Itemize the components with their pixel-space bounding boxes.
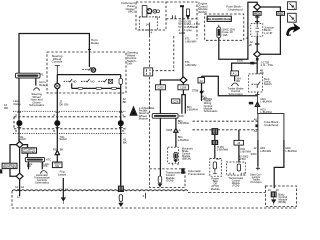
wire bottom left to transmission <box>62 178 64 198</box>
wire diamond D1 right branch <box>23 145 28 148</box>
module aux fuse block underhood box <box>258 114 284 141</box>
node label Steering Wheel Control Switch Left <box>127 51 138 66</box>
inline connector arrow right <box>255 102 259 106</box>
wire label RD BK <box>53 148 64 152</box>
svg-text:SW: SW <box>55 165 60 168</box>
horn symbol circle <box>91 68 95 72</box>
inline connector box C2 <box>144 68 153 76</box>
wire aux left output down <box>257 140 259 167</box>
switch body dashed box top edge <box>14 116 126 118</box>
mechanical coupling dotted line bottom <box>13 133 126 135</box>
wire diamond D3 right branch <box>202 76 258 96</box>
wire label BK1 below arrow <box>178 135 189 142</box>
black mark page edge <box>0 169 2 173</box>
node label T3G switch 2 <box>59 135 67 141</box>
svg-text:Left: Left <box>127 62 132 66</box>
pin tick below D5 <box>256 58 259 61</box>
svg-text:BK: BK <box>123 140 127 144</box>
pin label 1-HI <box>155 15 161 19</box>
svg-text:4 dr - T3G: 4 dr - T3G <box>261 63 273 67</box>
wire T1 to T2 <box>214 135 216 140</box>
fuse symbol in ECM <box>187 9 190 15</box>
module EBCM dashed box <box>168 147 179 163</box>
arrow ECM driver output <box>186 15 190 18</box>
junction block dashed sub-box <box>251 24 263 37</box>
IPC inner dashed sub-box <box>139 17 157 30</box>
module TCM dashed box <box>150 169 186 188</box>
lamp square symbol <box>108 79 112 83</box>
inline connector box K4 <box>198 78 205 84</box>
pin tick horn line into dashed box <box>88 49 91 51</box>
svg-text:RD: RD <box>53 148 57 152</box>
warning triangle note <box>129 106 137 116</box>
wire horn feed loop from clockspring to horn switch <box>19 34 89 74</box>
reference text Automatic Transmission Controls Schematics <box>34 173 50 185</box>
wire switch row output down <box>120 88 122 116</box>
connector arc symbol transmission <box>40 171 47 174</box>
wire left clockspring output down <box>18 78 20 117</box>
wire below stop lamp switch <box>255 85 259 113</box>
svg-text:5008: 5008 <box>166 128 172 132</box>
wire label left of channel 1 <box>187 105 198 112</box>
ground arrow bottom left <box>61 198 66 204</box>
stop lamp switch dashed box <box>249 74 263 92</box>
svg-text:Relay: Relay <box>91 41 99 45</box>
wire label 42 BK <box>123 97 127 104</box>
splice blob on trailer branch <box>250 62 254 65</box>
junction diamond D5 <box>254 51 261 57</box>
node label Automatic Transmission <box>188 169 205 176</box>
svg-text:ATC: ATC <box>46 157 51 161</box>
svg-text:10A: 10A <box>222 33 227 37</box>
svg-text:RD: RD <box>236 79 240 83</box>
arrow EBCM down <box>174 160 178 163</box>
svg-text:L of JP: L of JP <box>264 31 272 35</box>
svg-text:L-BU/WH: L-BU/WH <box>201 97 212 101</box>
resistor pill PTO <box>213 162 216 169</box>
svg-text:P1: P1 <box>40 73 44 77</box>
reference box ATC MFS switches left <box>2 163 17 169</box>
pin label A1 <box>254 129 258 133</box>
reference text Trailer Brake Controls Schematics <box>228 87 244 96</box>
svg-text:A-1: A-1 <box>233 72 238 76</box>
switch body dashed box left edge <box>13 117 15 129</box>
svg-text:Underhood: Underhood <box>264 123 278 127</box>
svg-text:BK: BK <box>123 100 127 104</box>
svg-text:1-HI: 1-HI <box>155 15 161 19</box>
reference box trailer relay <box>231 71 239 76</box>
connector clockspring coil bar P1 <box>16 73 41 78</box>
svg-text:Relay: Relay <box>14 102 22 106</box>
arrow BCM down <box>271 197 276 204</box>
node label Horn Relay 2 <box>39 80 47 87</box>
wire box B to diamond D2 <box>10 169 16 177</box>
node label Horn Relay <box>91 38 99 45</box>
svg-text:L-BU/WH: L-BU/WH <box>285 149 296 153</box>
pin labels 10 10 <box>268 188 279 192</box>
svg-text:(BCM): (BCM) <box>278 200 286 204</box>
resistor R4 vertical right end <box>119 75 122 89</box>
junction diamond D1 <box>16 142 23 148</box>
pin ticks above steer col reference <box>256 167 260 171</box>
reference box ATC MFS switches right <box>22 148 37 154</box>
inline connector arrow on fog line <box>55 149 59 162</box>
inline connector arrow on EBCM line <box>174 128 178 132</box>
node label Transmission Control Module TCM <box>166 171 182 183</box>
splice dot S3 <box>118 120 124 126</box>
steering wheel control switch left dashed box <box>47 52 126 93</box>
svg-text:HI/LO/HORN Relay: HI/LO/HORN Relay <box>206 17 232 21</box>
wire label 42 S003 <box>239 156 249 162</box>
node label Fuse Block Underhood 2 <box>264 120 280 127</box>
pin label A6 <box>254 118 258 122</box>
horn switch contact <box>82 67 91 70</box>
wire label HD1 right <box>285 146 296 153</box>
node label below boundary <box>17 194 20 198</box>
shielded cable channel double line <box>182 95 185 114</box>
wire diamond D1 left branch <box>10 145 16 164</box>
pin marks PTO <box>213 169 216 173</box>
inline connector box K1 <box>156 85 166 90</box>
connector blob on TCM box top <box>181 168 184 174</box>
wire aux right output down jog <box>274 140 284 188</box>
svg-text:Lamps: Lamps <box>58 172 67 176</box>
node label T3G switch 1 <box>18 135 26 141</box>
arrow TCM output <box>158 184 162 187</box>
svg-text:IPK: IPK <box>27 164 31 168</box>
wire label 16A RD <box>236 77 241 84</box>
svg-text:Schematics: Schematics <box>29 103 44 107</box>
wire K2 to shield channel <box>182 83 184 95</box>
svg-text:Relay: Relay <box>39 83 47 87</box>
pins below EBCM box <box>173 163 178 165</box>
svg-text:C208: C208 <box>180 86 187 90</box>
pin labels A2 A2 <box>59 188 69 192</box>
pin ticks on switch body crossings <box>17 112 123 127</box>
svg-text:B: B <box>122 129 124 133</box>
svg-text:L-BU/WH: L-BU/WH <box>178 121 189 125</box>
connector black box T2 <box>212 140 219 145</box>
pin labels C1 C1 <box>15 185 25 192</box>
wire diamond D4 down <box>256 10 258 12</box>
svg-text:C74: C74 <box>173 99 178 103</box>
wire label HD1 left <box>260 146 271 153</box>
pin tick black aux <box>255 124 258 127</box>
wire fuse output routing loop <box>219 2 257 59</box>
svg-text:Underhood: Underhood <box>228 7 243 11</box>
module PTO dashed box <box>210 159 222 177</box>
svg-text:14: 14 <box>146 23 150 27</box>
svg-text:IPK: IPK <box>43 164 47 168</box>
wire below trailer box <box>234 76 236 82</box>
stop lamp switch contact <box>251 82 260 86</box>
svg-text:Transmission: Transmission <box>188 172 205 176</box>
svg-text:5T08: 5T08 <box>192 89 199 93</box>
svg-text:W-BU: W-BU <box>239 158 246 161</box>
chime symbol <box>153 9 160 13</box>
switch SW2 <box>81 79 90 82</box>
reference box on transmission feed <box>234 140 244 145</box>
dashed option boundary right <box>153 36 174 71</box>
wire label PTO feed <box>217 145 228 152</box>
module BCM dashed box <box>266 186 297 207</box>
pin label 5008 <box>166 128 181 132</box>
svg-text:BK: BK <box>60 148 64 152</box>
wire from clockspring to horn relay reference <box>35 78 37 86</box>
svg-text:L-BU/WH: L-BU/WH <box>260 149 271 153</box>
svg-text:L-BU/WH: L-BU/WH <box>260 99 271 103</box>
lamp mark <box>55 66 60 75</box>
svg-text:(EBCM): (EBCM) <box>182 158 191 161</box>
pin label F28 <box>179 114 184 118</box>
svg-text:(TCM): (TCM) <box>232 185 239 188</box>
svg-text:Schematics: Schematics <box>35 181 50 185</box>
wire bottom bus of switch row <box>72 87 121 89</box>
connector blob BCM <box>271 191 277 197</box>
wire through switch body 1 <box>18 117 20 142</box>
junction diamond D3 <box>180 77 187 83</box>
boundary dashed right segment <box>188 191 266 193</box>
svg-text:F28: F28 <box>179 114 184 118</box>
icon hotlink box 1 <box>288 2 297 10</box>
pin label 14 <box>146 23 153 35</box>
svg-text:A1: A1 <box>254 129 258 133</box>
pins below TCM right <box>230 173 244 175</box>
wire label HD1 lower <box>260 108 271 115</box>
dashed wire A-right to aux block <box>193 120 258 122</box>
svg-text:(ECM): (ECM) <box>198 10 206 14</box>
inline connector box K2 <box>178 85 189 90</box>
module IPC dashed box <box>136 2 166 30</box>
junction diamond D2 <box>16 173 23 179</box>
boundary wavy dashed line <box>12 190 188 191</box>
svg-text:(IPC): (IPC) <box>128 10 135 14</box>
connector C2 blob bottom of center line <box>118 186 124 192</box>
connector box RED left <box>253 12 261 16</box>
wire trailer branch <box>232 63 258 71</box>
svg-text:2F: 2F <box>249 43 252 47</box>
fuse SWC vertical <box>217 25 221 38</box>
svg-text:L-BU/WH: L-BU/WH <box>240 150 251 153</box>
svg-text:RD: RD <box>260 71 264 75</box>
svg-text:B2: B2 <box>216 157 220 161</box>
note text Adjustable Pedals Steering Wheel Module <box>139 106 155 120</box>
inline connector small box K3 <box>172 99 180 103</box>
wire label 6T1 lower <box>185 60 196 67</box>
pin label 2F <box>249 43 252 47</box>
svg-text:L-BU/WH: L-BU/WH <box>185 63 196 67</box>
pin tick ECM top <box>180 5 184 7</box>
splice dot S2 <box>54 120 60 126</box>
wire label 16 RD <box>4 103 8 110</box>
wire label Horn Relay <box>14 99 22 106</box>
wire label S306 <box>237 58 244 62</box>
wire label 42 BK lower <box>123 138 127 145</box>
splice diamond black <box>200 90 204 94</box>
wire K4 down <box>201 83 203 101</box>
svg-text:L-BU/WH: L-BU/WH <box>178 138 189 142</box>
wire label HD1 upper <box>260 97 271 104</box>
splice dot S1 <box>16 120 22 126</box>
svg-text:Controls: Controls <box>52 60 63 64</box>
svg-text:(TCM): (TCM) <box>166 178 174 182</box>
svg-text:RED: RED <box>278 12 284 16</box>
svg-text:L2: L2 <box>17 194 20 198</box>
node label Electronic Brake Control Module EBCM <box>182 148 194 161</box>
resistor pill EBCM dark <box>174 152 178 159</box>
svg-text:S003: S003 <box>251 153 257 156</box>
pin labels fuse block bottom <box>246 36 254 44</box>
wire RED left down with pins <box>255 15 259 23</box>
reference text steer col lamps <box>250 172 262 184</box>
svg-text:Switch: Switch <box>264 82 272 86</box>
pin label P1 <box>40 73 44 77</box>
pin labels on switch body <box>15 113 124 133</box>
wire through switch body 3 <box>120 117 122 186</box>
node label Instrument Panel Cluster IPC <box>121 1 135 13</box>
reference box fog lamps <box>52 162 62 168</box>
connector arc symbol to horn circuit <box>33 88 39 91</box>
node label Power Take Off PTO Module <box>211 176 220 190</box>
wire through switch body 2 <box>56 117 58 149</box>
wire label HD1 transmission <box>240 148 251 154</box>
wire diamond D1 to D2 <box>19 148 21 174</box>
fuse label SWC Fuse 10A <box>222 27 235 37</box>
dashed option boundary column <box>149 35 151 169</box>
resistor R1 <box>78 87 83 89</box>
resistor R3 <box>111 87 116 89</box>
icon curved arrow <box>287 24 300 35</box>
connector clockspring coil bar 2 <box>25 157 44 161</box>
svg-text:Switch: Switch <box>18 137 26 141</box>
module ECM dashed box <box>166 2 197 39</box>
reference text Fog Lamps Schematics <box>58 170 67 177</box>
module fuse block underhood dashed box <box>205 14 244 40</box>
wire clockspring 2 output 1 <box>28 161 30 169</box>
wire K1 down through clockspring <box>159 90 161 176</box>
ECM pins crossing <box>172 15 175 18</box>
svg-text:Provision: Provision <box>250 180 262 184</box>
svg-text:RD: RD <box>4 106 8 110</box>
splice blob S307 <box>249 102 253 105</box>
icon hotlink box 2 <box>288 13 297 22</box>
node label Body Control Module BCM <box>278 192 287 204</box>
svg-text:A2: A2 <box>200 79 204 83</box>
IPC driver rectangle <box>142 6 147 17</box>
node label Engine Control Module ECM <box>198 2 208 14</box>
wire label 4B RD <box>260 69 264 76</box>
wire junction block to diamond D5 <box>255 36 259 51</box>
pin label B2 <box>216 157 220 161</box>
illumination lamp circle <box>55 75 60 117</box>
node label Stop Lamp Switch <box>264 77 272 86</box>
svg-text:L-BU/WH: L-BU/WH <box>217 147 228 151</box>
svg-text:10: 10 <box>268 188 271 192</box>
connector black box T1 <box>212 128 219 135</box>
pins inside junction block <box>255 24 259 37</box>
relay label box HORN relay <box>206 16 232 21</box>
svg-text:L-BU/WH: L-BU/WH <box>187 107 198 111</box>
reference text trailer wiring provisions <box>204 96 219 113</box>
ground arrow center bottom <box>119 201 124 206</box>
pin tick below boundary center <box>145 193 147 199</box>
wire ECM output down <box>182 7 184 77</box>
svg-text:1 gray: 1 gray <box>184 28 192 32</box>
svg-text:RED: RED <box>254 12 260 16</box>
svg-text:A: A <box>53 113 55 117</box>
pin label 5T08 <box>192 89 205 94</box>
wire top bus of switch row <box>57 74 120 76</box>
wire D5 down to stop lamp switch <box>256 58 258 74</box>
wire sw1 resistor stub <box>71 83 73 88</box>
svg-text:S306: S306 <box>237 58 244 62</box>
switch SW1 <box>64 79 73 82</box>
svg-text:ECM: ECM <box>179 31 186 35</box>
svg-text:Schematics: Schematics <box>204 109 219 113</box>
pin label ATC <box>46 157 51 161</box>
wire label left of channel 2 <box>178 119 189 125</box>
svg-text:G1: G1 <box>21 185 25 189</box>
svg-text:SWITCHES: SWITCHES <box>23 151 36 154</box>
mechanical coupling dotted line top <box>13 110 126 112</box>
boundary dashed bottom line <box>12 207 297 209</box>
switch body dashed box bottom edge <box>14 128 126 130</box>
svg-text:A: A <box>203 89 205 93</box>
svg-text:A: A <box>179 128 181 132</box>
node label Fuse Block Underhood <box>226 5 242 12</box>
module TCM right dashed box <box>226 162 245 175</box>
svg-text:NO: NO <box>90 80 94 84</box>
svg-text:A: A <box>15 113 17 117</box>
wire label J-1738 <box>261 61 273 68</box>
resistor pill TCM right <box>237 164 240 171</box>
switch SW3 <box>98 79 107 82</box>
wire label J2 DK GN <box>59 100 68 107</box>
node label Steering Wheel Illumination <box>52 54 63 64</box>
wire label Lock IPK 1 <box>27 162 33 168</box>
dashed wire B-right to aux block <box>193 129 258 131</box>
wire diamond D3 left branch <box>160 80 180 85</box>
node label Junction Block L of JP <box>264 26 275 35</box>
fuse pill below center connector <box>119 195 122 202</box>
svg-text:L-BU/WH: L-BU/WH <box>185 39 196 43</box>
pin label 5 <box>143 194 145 198</box>
wire T2 to PTO <box>214 145 216 159</box>
svg-text:NO: NO <box>73 80 77 84</box>
gauge G1 with needle <box>147 9 152 14</box>
junction diamond D4 <box>254 4 261 10</box>
svg-text:Switch: Switch <box>59 137 67 141</box>
svg-text:Schematics: Schematics <box>228 92 243 96</box>
connector clockspring coil bar 3 <box>152 114 178 119</box>
wire diamond D4 right loop <box>261 7 281 54</box>
resistor pill TCM <box>158 176 162 183</box>
wire junction from dashed wire to transmission module <box>238 130 240 163</box>
connector arc symbol trailer <box>231 83 238 86</box>
svg-text:Module: Module <box>139 116 149 120</box>
IPC pin wire <box>149 23 151 36</box>
wire label Lock IPK 2 <box>43 162 49 168</box>
svg-text:B: B <box>15 129 17 133</box>
wire diamond D2 down <box>19 179 21 196</box>
wire clockspring 2 output 2 <box>41 161 43 169</box>
pin label sw2 <box>90 80 94 84</box>
connector box RED right <box>277 12 285 16</box>
svg-text:A6: A6 <box>254 118 258 122</box>
svg-text:C200: C200 <box>157 86 164 90</box>
svg-text:DK GN: DK GN <box>59 102 68 106</box>
wire below clockspring 3 <box>175 118 177 147</box>
